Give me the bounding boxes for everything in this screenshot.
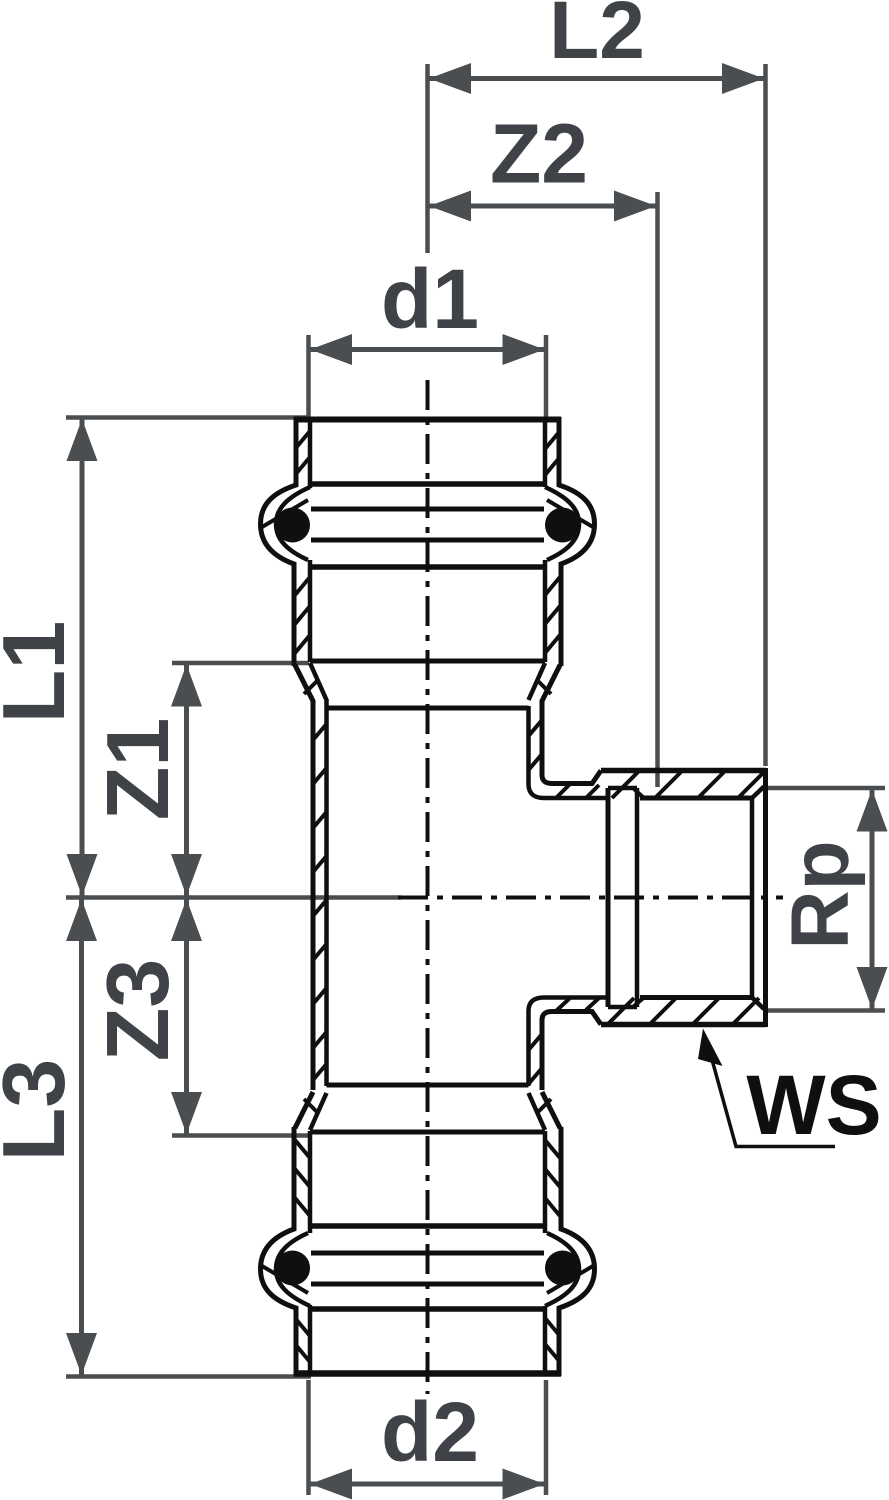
top socket bead lower shoulder line bbox=[310, 564, 545, 570]
bottom socket left outer wall bbox=[261, 1127, 297, 1376]
branch socket end face inner bbox=[750, 797, 755, 998]
bottom socket left inner wall upper bbox=[308, 1131, 313, 1233]
branch socket outer top line bbox=[601, 768, 766, 774]
pipe left outer wall bbox=[311, 700, 316, 1090]
dimension L2 extension line left (pipe axis) bbox=[425, 64, 430, 253]
top socket right inner bulge bbox=[545, 487, 579, 560]
branch thread relief right shoulder bbox=[635, 788, 640, 1007]
dimension Rp line with arrows bbox=[870, 788, 875, 1011]
branch thread relief top line bbox=[608, 786, 637, 791]
top socket right taper outer bbox=[542, 665, 560, 701]
dimension Z3 extension line bottom bbox=[172, 1133, 309, 1138]
pipe left inner wall bbox=[324, 699, 329, 1086]
top socket o-ring chamber bottom line bbox=[311, 538, 544, 543]
shared extension line at branch axis bbox=[66, 895, 401, 900]
bottom socket right outer wall bbox=[559, 1127, 595, 1376]
svg-text:Z1: Z1 bbox=[88, 718, 187, 821]
dimension L1 line with arrows bbox=[80, 418, 85, 898]
top socket inner stop shoulder bbox=[327, 706, 529, 711]
bottom socket left taper outer bbox=[295, 1092, 313, 1128]
top socket left taper inner bbox=[310, 663, 327, 700]
top socket end line bbox=[310, 659, 545, 664]
branch bore chamfer bottom-left bbox=[634, 998, 644, 1007]
dimension d1 extension line left bbox=[306, 335, 311, 419]
dimension d1 line with arrows bbox=[309, 347, 547, 352]
top socket right outer wall bbox=[559, 417, 595, 666]
bottom socket left taper inner bbox=[310, 1093, 327, 1130]
top socket right taper inner bbox=[529, 663, 546, 700]
bottom socket bead upper shoulder line bbox=[310, 1223, 545, 1229]
o-ring seal right (top socket) bbox=[545, 508, 580, 543]
svg-text:Z2: Z2 bbox=[490, 107, 588, 201]
section hatching on fitting walls bbox=[262, 431, 764, 1362]
dimension Z1 extension line top bbox=[172, 661, 309, 666]
bottom socket bead shoulder line bbox=[310, 1306, 545, 1312]
branch thread relief bottom line bbox=[608, 1005, 637, 1010]
bottom socket right inner bulge bbox=[545, 1233, 579, 1306]
branch bore chamfer bottom bbox=[752, 998, 764, 1010]
dimension Rp extension line bottom bbox=[763, 1008, 885, 1013]
bottom socket mouth edge bbox=[294, 1370, 561, 1377]
bottom socket right taper inner bbox=[529, 1093, 546, 1130]
o-ring seal left (top socket) bbox=[275, 508, 310, 543]
branch thread bore bottom line bbox=[640, 995, 753, 1000]
dimension L1 extension line top bbox=[66, 415, 309, 420]
svg-text:L1: L1 bbox=[0, 621, 83, 724]
bottom socket right taper outer bbox=[542, 1092, 560, 1128]
svg-text:d2: d2 bbox=[381, 1385, 479, 1479]
dimension d1 extension line right bbox=[544, 335, 549, 419]
bottom socket o-ring chamber bottom line bbox=[311, 1282, 544, 1287]
dimension L3 line with arrows bbox=[79, 898, 84, 1377]
branch socket outer bottom line bbox=[601, 1022, 766, 1028]
dimension L2 line with arrows bbox=[428, 76, 766, 81]
top socket o-ring chamber top line bbox=[311, 507, 544, 512]
svg-text:L3: L3 bbox=[0, 1059, 83, 1162]
pipe right inner wall upper bbox=[529, 706, 609, 798]
branch bore chamfer top-left bbox=[634, 789, 644, 798]
top socket right inner wall lower bbox=[543, 560, 548, 662]
bottom socket right inner wall upper bbox=[543, 1131, 548, 1233]
dimension Z2 line with arrows bbox=[428, 204, 658, 209]
dimension Z3 line with arrows bbox=[184, 898, 189, 1136]
top socket mouth edge bbox=[294, 417, 561, 423]
dimension d2 line with arrows bbox=[309, 1482, 547, 1487]
top socket bead shoulder line bbox=[310, 481, 545, 487]
branch centerline (dash-dot) bbox=[398, 896, 783, 900]
dimension d2 extension line left bbox=[306, 1380, 311, 1495]
top socket left outer wall bbox=[261, 417, 297, 666]
top socket right inner wall upper bbox=[543, 420, 548, 488]
WS leader line bbox=[711, 1056, 835, 1147]
pipe right outer wall upper bbox=[542, 700, 601, 784]
svg-text:Z3: Z3 bbox=[88, 959, 187, 1062]
vertical pipe centerline (dash-dot) bbox=[426, 380, 430, 1394]
top socket left inner wall upper bbox=[308, 420, 313, 489]
svg-text:Rp: Rp bbox=[775, 840, 866, 949]
WS leader arrowhead bbox=[698, 1029, 723, 1067]
dimension L3 extension line bottom bbox=[66, 1374, 311, 1379]
pipe right outer wall lower bbox=[542, 1012, 601, 1091]
dimension Z1 line with arrows bbox=[184, 663, 189, 898]
dimension Z2 extension line right bbox=[655, 192, 660, 787]
bottom socket end line bbox=[310, 1130, 545, 1135]
pipe right inner wall lower bbox=[529, 998, 609, 1087]
branch thread bore top line bbox=[640, 796, 753, 801]
svg-text:d1: d1 bbox=[381, 252, 479, 346]
bottom socket o-ring chamber top line bbox=[311, 1251, 544, 1256]
o-ring seal right (bottom socket) bbox=[545, 1251, 580, 1286]
top socket left inner wall lower bbox=[308, 560, 313, 662]
top socket left inner bulge bbox=[276, 487, 310, 560]
branch thread relief left shoulder bbox=[606, 788, 611, 1007]
dimension d2 extension line right bbox=[544, 1380, 549, 1495]
bottom socket left inner bulge bbox=[276, 1233, 310, 1306]
top socket left taper outer bbox=[295, 665, 313, 701]
svg-text:WS: WS bbox=[746, 1058, 881, 1152]
dimension Rp extension line top bbox=[766, 786, 885, 791]
bottom socket left inner wall lower bbox=[308, 1305, 313, 1374]
bottom socket right inner wall lower bbox=[543, 1306, 548, 1374]
branch bore chamfer top bbox=[752, 787, 764, 799]
svg-text:L2: L2 bbox=[549, 0, 645, 76]
dimension L2 extension line right (branch end) bbox=[763, 64, 768, 766]
o-ring seal left (bottom socket) bbox=[275, 1251, 310, 1286]
bottom socket inner stop shoulder bbox=[327, 1083, 529, 1088]
branch socket end face outer bbox=[763, 768, 768, 1027]
